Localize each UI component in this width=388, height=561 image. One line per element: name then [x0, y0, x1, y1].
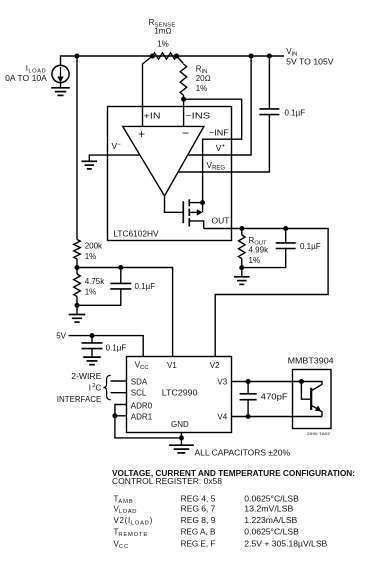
resistor ROUT	[241, 229, 243, 236]
capacitor 0.1uF (VREG)	[259, 109, 279, 115]
svg-text:ADR1: ADR1	[131, 413, 153, 422]
svg-text:ADR0: ADR0	[131, 401, 153, 410]
svg-text:LTC6102HV: LTC6102HV	[113, 229, 159, 238]
svg-text:4.75k: 4.75k	[85, 277, 106, 286]
svg-text:REG 4, 5: REG 4, 5	[181, 495, 216, 504]
op-amp triangle	[123, 126, 204, 196]
wire top VIN rail	[61, 56, 285, 65]
svg-text:REG A, B: REG A, B	[181, 528, 216, 537]
svg-text:V2: V2	[210, 361, 220, 370]
svg-text:0A TO 10A: 0A TO 10A	[5, 74, 48, 83]
svg-text:−INF: −INF	[209, 127, 229, 137]
svg-text:1%: 1%	[196, 84, 208, 93]
node 5V cap	[90, 333, 95, 338]
node V3/cap	[246, 379, 251, 384]
ground ROUT	[234, 277, 250, 285]
svg-text:TREMOTE: TREMOTE	[114, 528, 149, 539]
svg-text:VCC: VCC	[114, 539, 130, 550]
wire divider to V1	[77, 268, 173, 357]
svg-text:0.1µF: 0.1µF	[106, 344, 127, 353]
svg-text:V−: V−	[112, 141, 122, 151]
wire 5V to VCC	[69, 336, 144, 357]
resistor 4.75k	[76, 268, 78, 275]
ground 5V cap	[83, 357, 101, 365]
svg-text:INTERFACE: INTERFACE	[57, 395, 102, 404]
node mosfet drain	[200, 200, 205, 205]
node ADR tie	[112, 413, 117, 418]
node RIN bottom	[181, 97, 186, 102]
svg-text:VCC: VCC	[135, 360, 149, 371]
wire VREG	[178, 115, 269, 172]
svg-text:ALL CAPACITORS ±20%: ALL CAPACITORS ±20%	[195, 449, 291, 458]
svg-text:REG 8, 9: REG 8, 9	[181, 516, 216, 525]
capacitor 0.1uF (OUT)	[276, 243, 296, 249]
svg-text:4.99k: 4.99k	[249, 246, 270, 255]
svg-text:0.0625°C/LSB: 0.0625°C/LSB	[244, 495, 298, 504]
svg-text:0.1µF: 0.1µF	[135, 282, 156, 291]
svg-text:SCL: SCL	[131, 389, 147, 398]
svg-text:VIN: VIN	[286, 47, 297, 58]
brace I2C	[103, 375, 110, 400]
current source ILOAD	[52, 65, 69, 82]
node OUT/ROUT	[239, 226, 244, 231]
svg-text:V1: V1	[167, 361, 177, 370]
resistor 200k	[74, 240, 81, 260]
svg-text:0.1µF: 0.1µF	[300, 242, 321, 251]
svg-text:5V TO 105V: 5V TO 105V	[286, 58, 334, 67]
wire -INF feedback	[184, 99, 242, 212]
svg-text:REG 6, 7: REG 6, 7	[181, 505, 216, 514]
ground divider	[69, 315, 85, 323]
svg-text:1%: 1%	[85, 288, 97, 297]
wire VIN cap top lead	[268, 56, 270, 109]
capacitor 470pF	[240, 394, 257, 400]
svg-text:I2C: I2C	[89, 383, 102, 392]
ground V-	[82, 161, 98, 169]
svg-text:200k: 200k	[85, 242, 103, 251]
node Q1 base/collector	[299, 379, 304, 384]
svg-text:470pF: 470pF	[261, 393, 288, 402]
capacitor 0.1uF at OUT leads	[285, 229, 287, 243]
svg-text:0.0625°C/LSB: 0.0625°C/LSB	[244, 528, 298, 537]
capacitor 470pF leads	[247, 382, 249, 394]
capacitor 0.1uF 5V leads	[91, 336, 93, 343]
svg-text:+IN: +IN	[144, 110, 161, 120]
wire OUT to V2	[204, 229, 328, 357]
svg-text:VREG: VREG	[206, 160, 225, 171]
svg-text:GND: GND	[171, 420, 189, 429]
svg-text:V4: V4	[217, 412, 227, 421]
transistor Q1 MMBT3904 box	[293, 370, 332, 429]
ground GND	[169, 445, 194, 453]
svg-text:1.223mA/LSB: 1.223mA/LSB	[244, 516, 297, 525]
wire GND pin	[180, 432, 182, 445]
node RSENSE right	[174, 54, 179, 59]
node OUT/cap	[283, 226, 288, 231]
wire +IN kelvin	[143, 56, 153, 126]
node GND node	[179, 435, 184, 440]
wire -INS	[183, 99, 185, 126]
IC U2 LTC2990 box	[127, 357, 232, 433]
svg-text:V2(ILOAD): V2(ILOAD)	[114, 516, 153, 527]
node divider mid	[75, 265, 80, 270]
svg-text:1%: 1%	[85, 252, 97, 261]
op-amp U1 LTC6102HV box	[108, 107, 232, 241]
svg-text:SDA: SDA	[131, 378, 148, 387]
svg-text:OUT: OUT	[212, 216, 230, 226]
node RSENSE left	[150, 54, 155, 59]
capacitor 0.1uF (divider)	[110, 283, 131, 289]
svg-text:V+: V+	[216, 143, 226, 153]
node VIN/V+	[249, 54, 254, 59]
svg-text:2.5V + 305.18µV/LSB: 2.5V + 305.18µV/LSB	[244, 539, 327, 548]
svg-text:20Ω: 20Ω	[196, 74, 211, 83]
mosfet M1 gate wire	[165, 196, 183, 212]
node divider bottom	[75, 303, 80, 308]
wire SCL	[111, 392, 127, 394]
svg-text:V3: V3	[217, 378, 227, 387]
wire V3	[231, 381, 301, 383]
wire left rail	[76, 56, 78, 240]
svg-text:13.2mV/LSB: 13.2mV/LSB	[244, 505, 293, 514]
svg-text:2-WIRE: 2-WIRE	[71, 372, 101, 381]
svg-text:CONTROL REGISTER: 0x58: CONTROL REGISTER: 0x58	[112, 477, 223, 486]
svg-text:MMBT3904: MMBT3904	[288, 355, 334, 365]
node V4/cap	[246, 414, 251, 419]
svg-text:0.1µF: 0.1µF	[285, 109, 306, 118]
mosfet M1	[183, 199, 189, 226]
wire V4	[231, 416, 322, 418]
svg-text:LTC2990: LTC2990	[162, 389, 198, 398]
svg-text:1%: 1%	[157, 39, 169, 48]
svg-text:REG E, F: REG E, F	[181, 539, 216, 548]
capacitor 0.1uF divider leads	[120, 268, 122, 284]
svg-text:−INS: −INS	[185, 110, 210, 120]
wire V- to ground	[89, 155, 140, 161]
svg-text:1mΩ: 1mΩ	[154, 27, 171, 36]
resistor RIN	[177, 56, 184, 64]
ground below ILOAD	[51, 88, 70, 96]
svg-text:VLOAD: VLOAD	[114, 505, 138, 515]
node A	[75, 54, 80, 59]
wire V+	[188, 56, 251, 155]
svg-text:2990 TA02: 2990 TA02	[307, 431, 331, 436]
svg-text:+: +	[138, 127, 145, 141]
svg-text:5V: 5V	[56, 331, 66, 340]
resistor RSENSE	[153, 53, 177, 59]
capacitor 0.1uF (5V)	[82, 343, 103, 349]
node ROUT bottom	[239, 265, 244, 270]
wire SDA	[111, 380, 127, 382]
svg-text:−: −	[182, 126, 189, 140]
wire current source to ground	[60, 83, 62, 88]
wire ADR0+ADR1 tie	[115, 405, 181, 438]
node cap tap	[118, 265, 123, 270]
svg-text:1%: 1%	[249, 256, 261, 265]
node VIN/cap	[267, 54, 272, 59]
